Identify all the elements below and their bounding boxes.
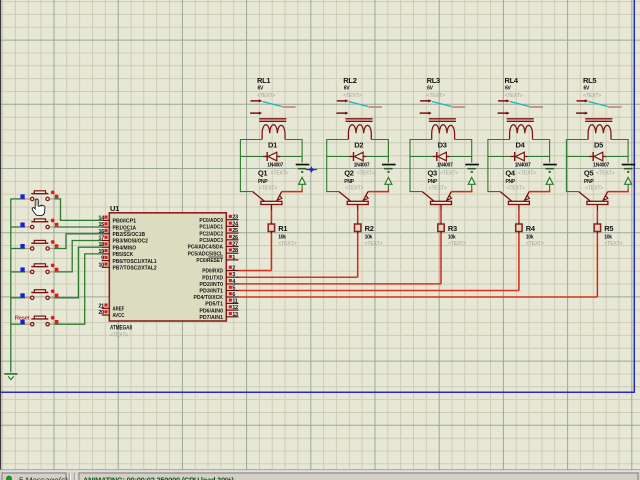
svg-text:PNP: PNP [506, 179, 516, 185]
svg-text:<TEXT>: <TEXT> [345, 185, 363, 191]
resistor R2 10k [355, 224, 383, 247]
svg-text:<TEXT>: <TEXT> [259, 185, 277, 191]
svg-text:1: 1 [232, 255, 235, 261]
wire base to resistor [518, 211, 520, 224]
pin 4 PD2/INT0 [199, 279, 238, 288]
svg-text:ANIMATING: 00:00:02.250000 (CP: ANIMATING: 00:00:02.250000 (CPU load 30%… [83, 476, 234, 480]
svg-text:PB0/ICP1: PB0/ICP1 [113, 219, 137, 225]
wire trunk to button B4 [11, 271, 25, 273]
svg-text:17: 17 [98, 236, 104, 242]
svg-text:PB2/SS/OC1B: PB2/SS/OC1B [113, 232, 146, 238]
diode D5 1N4007 [589, 141, 615, 177]
svg-text:<TEXT>: <TEXT> [110, 333, 128, 339]
power terminal arrow [625, 177, 632, 189]
svg-text:10k: 10k [604, 234, 612, 240]
svg-text:6V: 6V [505, 86, 511, 92]
svg-text:PC2/ADC2: PC2/ADC2 [199, 231, 223, 237]
pin 13 PD7/AIN1 [199, 312, 238, 321]
pin 21 AREF [98, 303, 124, 312]
resistor R5 10k [594, 224, 622, 247]
wire row from MCU pin [239, 296, 598, 298]
button B5 [20, 289, 58, 299]
svg-text:<TEXT>: <TEXT> [526, 241, 544, 247]
svg-text:AVCC: AVCC [113, 313, 125, 319]
pin 2 PD0/RXD [202, 266, 238, 275]
pin 25 PC2/ADC2 [199, 228, 238, 237]
wire resistor to row [357, 232, 359, 278]
svg-text:PC3/ADC3: PC3/ADC3 [199, 238, 223, 244]
wire row from MCU pin [239, 283, 442, 285]
svg-text:PD1/TXD: PD1/TXD [202, 275, 223, 281]
svg-text:R3: R3 [448, 224, 457, 233]
op MCU U1 body [109, 204, 226, 339]
status bar [0, 469, 640, 480]
svg-text:ATMEGA8: ATMEGA8 [110, 325, 132, 332]
svg-text:6: 6 [232, 292, 235, 298]
battery [543, 164, 557, 173]
svg-text:PB1/OC1A: PB1/OC1A [113, 225, 137, 231]
svg-text:<TEXT>: <TEXT> [365, 241, 383, 247]
svg-text:<TEXT>: <TEXT> [585, 185, 603, 191]
pin 12 PD6/AIN0 [199, 305, 238, 314]
wire row from MCU pin [239, 276, 358, 278]
svg-text:<TEXT>: <TEXT> [507, 185, 525, 191]
svg-text:PD6/AIN0: PD6/AIN0 [199, 308, 223, 314]
svg-text:Q1: Q1 [258, 168, 268, 177]
svg-text:<TEXT>: <TEXT> [257, 93, 275, 99]
transistor Q3 PNP [422, 168, 451, 210]
diode D3 1N4007 [433, 141, 459, 177]
pin 26 PC3/ADC3 [199, 235, 238, 244]
ground [4, 374, 17, 380]
svg-text:<TEXT>: <TEXT> [448, 241, 466, 247]
relay RL4 6V [498, 76, 544, 140]
pin 11 PD5/T1 [205, 298, 238, 307]
wire relay loop [327, 140, 389, 192]
svg-text:PNP: PNP [258, 179, 268, 185]
wire emitter to power [282, 189, 302, 191]
wire resistor to row [440, 232, 442, 284]
svg-text:PNP: PNP [584, 179, 594, 185]
wire emitter to power [368, 189, 388, 191]
wire relay loop [240, 140, 302, 192]
svg-text:1N4007: 1N4007 [515, 162, 531, 168]
wire resistor to row [596, 232, 598, 298]
svg-text:20: 20 [98, 310, 104, 316]
pin 23 PC0/ADC0 [199, 215, 238, 224]
pin 17 PB3/MOSI/OC2 [98, 236, 148, 245]
pin 9 PB6/TOSC1/XTAL1 [101, 256, 157, 265]
svg-text:11: 11 [232, 298, 237, 304]
svg-text:U1: U1 [110, 204, 119, 213]
svg-text:PB4/MISO: PB4/MISO [113, 245, 137, 251]
svg-text:PNP: PNP [344, 179, 354, 185]
svg-text:28: 28 [232, 248, 238, 254]
svg-text:<TEXT>: <TEXT> [604, 241, 622, 247]
svg-text:R2: R2 [365, 224, 374, 233]
power terminal arrow [468, 177, 475, 189]
svg-text:PD4/T0/XCK: PD4/T0/XCK [194, 295, 224, 301]
wire button B5 to MCU [54, 247, 101, 298]
svg-text:D5: D5 [594, 141, 603, 150]
svg-text:PB6/TOSC1/XTAL1: PB6/TOSC1/XTAL1 [113, 259, 157, 265]
svg-text:PC1/ADC1: PC1/ADC1 [199, 225, 223, 231]
svg-text:23: 23 [232, 215, 238, 221]
svg-text:10k: 10k [365, 234, 373, 240]
svg-text:PC4/ADC4/SDA: PC4/ADC4/SDA [188, 245, 223, 251]
svg-text:PC5/ADC5/SCL: PC5/ADC5/SCL [188, 251, 224, 257]
wire resistor to row [518, 232, 520, 291]
svg-text:PC0/ADC0: PC0/ADC0 [199, 218, 223, 224]
wire trunk to button B5 [11, 297, 25, 299]
svg-text:27: 27 [232, 242, 238, 248]
svg-text:16: 16 [98, 229, 104, 235]
pin 6 PD4/T0/XCK [194, 292, 239, 301]
svg-text:PD2/INT0: PD2/INT0 [199, 282, 223, 288]
svg-text:12: 12 [232, 305, 238, 311]
pin 18 PB4/MISO [98, 242, 136, 251]
svg-text:6V: 6V [344, 86, 350, 92]
svg-text:PC6/RESET: PC6/RESET [196, 258, 223, 264]
pin 28 PC5/ADC5/SCL [188, 248, 239, 257]
svg-text:PD0/RXD: PD0/RXD [202, 269, 223, 275]
diode D4 1N4007 [511, 141, 537, 177]
svg-text:<TEXT>: <TEXT> [278, 241, 296, 247]
left window edge [0, 0, 1, 480]
wire button B6 Reset to MCU [54, 254, 101, 324]
wire relay loop [566, 140, 628, 192]
pin 10 PB7/TOSC2/XTAL2 [98, 262, 156, 271]
svg-text:R1: R1 [278, 224, 287, 233]
status play icon [7, 476, 12, 480]
pin 27 PC4/ADC4/SDA [188, 242, 239, 251]
pin 19 PB5/SCK [98, 249, 133, 258]
svg-text:PD3/INT1: PD3/INT1 [199, 289, 223, 295]
button B4 [20, 264, 58, 274]
power terminal arrow [385, 177, 392, 189]
relay RL1 6V [250, 76, 296, 140]
wire base to resistor [357, 211, 359, 224]
svg-text:1N4007: 1N4007 [593, 162, 609, 168]
pin 5 PD3/INT1 [199, 286, 238, 295]
svg-text:RL3: RL3 [427, 76, 440, 85]
svg-text:D2: D2 [354, 141, 363, 150]
svg-text:9: 9 [101, 256, 104, 262]
svg-text:Reset: Reset [15, 315, 30, 321]
wire base to resistor [596, 211, 598, 224]
svg-text:Q4: Q4 [505, 168, 516, 177]
pin 24 PC1/ADC1 [199, 221, 239, 230]
resistor R4 10k [516, 224, 544, 247]
svg-text:6V: 6V [584, 86, 590, 92]
svg-text:PD5/T1: PD5/T1 [205, 302, 223, 308]
svg-text:R5: R5 [604, 224, 613, 233]
svg-text:2: 2 [232, 266, 235, 272]
svg-text:<TEXT>: <TEXT> [429, 185, 447, 191]
wire emitter to power [529, 189, 549, 191]
diode D2 1N4007 [349, 141, 375, 177]
button B1 [20, 191, 58, 201]
mouse cursor hand [32, 199, 45, 216]
svg-text:R4: R4 [526, 224, 536, 233]
svg-text:15: 15 [98, 222, 104, 228]
wire row from MCU pin [239, 290, 519, 292]
svg-text:<TEXT>: <TEXT> [427, 93, 445, 99]
wire button B2 to MCU [54, 226, 101, 228]
svg-text:Q2: Q2 [344, 168, 354, 177]
svg-text:19: 19 [98, 249, 104, 255]
svg-text:3: 3 [232, 272, 235, 278]
svg-text:D4: D4 [516, 141, 526, 150]
svg-text:<TEXT>: <TEXT> [343, 93, 361, 99]
svg-text:10k: 10k [526, 234, 534, 240]
button B6 Reset [20, 316, 58, 326]
svg-text:1N4007: 1N4007 [267, 162, 283, 168]
svg-text:6V: 6V [258, 86, 264, 92]
wire trunk to button B6 Reset [11, 323, 25, 325]
wire button B4 to MCU [54, 241, 101, 272]
pin 16 PB2/SS/OC1B [98, 229, 145, 238]
svg-text:Q5: Q5 [584, 168, 594, 177]
svg-text:<TEXT>: <TEXT> [518, 171, 536, 177]
svg-text:PD7/AIN1: PD7/AIN1 [199, 315, 223, 321]
svg-text:<TEXT>: <TEXT> [505, 93, 523, 99]
svg-text:13: 13 [232, 312, 238, 318]
svg-text:6V: 6V [427, 86, 433, 92]
power terminal arrow [299, 177, 306, 189]
svg-text:PB3/MOSI/OC2: PB3/MOSI/OC2 [113, 239, 148, 245]
pin 1 PC6/RESET [196, 255, 238, 264]
svg-text:25: 25 [232, 228, 238, 234]
svg-text:1N4007: 1N4007 [354, 162, 370, 168]
power terminal arrow [546, 177, 553, 189]
wire relay loop [410, 140, 472, 192]
svg-text:26: 26 [232, 235, 238, 241]
wire trunk to button B1 [11, 198, 25, 200]
wire base to resistor [270, 211, 272, 224]
svg-text:<TEXT>: <TEXT> [440, 171, 458, 177]
wire button B3 to MCU [54, 234, 101, 249]
svg-text:<TEXT>: <TEXT> [583, 93, 601, 99]
resistor R3 10k [438, 224, 466, 247]
pin 15 PB1/OC1A [98, 222, 136, 231]
svg-text:AREF: AREF [113, 307, 125, 313]
wire emitter to power [451, 189, 471, 191]
svg-text:18: 18 [98, 242, 104, 248]
wire trunk to button B2 [11, 226, 25, 228]
wire relay loop [488, 140, 550, 192]
wire trunk vertical [10, 199, 12, 373]
svg-text:D1: D1 [268, 141, 277, 150]
svg-text:<TEXT>: <TEXT> [270, 171, 288, 177]
svg-text:5: 5 [232, 286, 235, 292]
svg-text:PB5/SCK: PB5/SCK [113, 252, 134, 258]
svg-text:Q3: Q3 [428, 168, 438, 177]
transistor Q5 PNP [579, 168, 608, 210]
wire base to resistor [440, 211, 442, 224]
relay RL5 6V [576, 76, 622, 140]
svg-text:RL1: RL1 [257, 76, 270, 85]
wire trunk to button B3 [11, 248, 25, 250]
battery [465, 164, 479, 173]
pin 20 AVCC [98, 310, 124, 319]
svg-text:10: 10 [98, 262, 104, 268]
svg-text:PB7/TOSC2/XTAL2: PB7/TOSC2/XTAL2 [113, 266, 157, 272]
button B2 [20, 219, 58, 229]
transistor Q2 PNP [339, 168, 368, 210]
battery [382, 164, 396, 173]
pin 14 PB0/ICP1 [98, 215, 136, 224]
wire button B1 to MCU [54, 199, 101, 221]
diode D1 1N4007 [263, 141, 289, 177]
pin 3 PD1/TXD [202, 272, 238, 281]
svg-text:1N4007: 1N4007 [437, 162, 453, 168]
wire resistor to row [270, 232, 272, 271]
transistor Q1 PNP [253, 168, 282, 210]
relay RL2 6V [336, 76, 382, 140]
battery [622, 164, 636, 173]
resistor R1 10k [268, 224, 296, 247]
button B3 [20, 240, 58, 250]
svg-text:PNP: PNP [428, 179, 438, 185]
svg-text:10k: 10k [448, 234, 456, 240]
svg-text:RL4: RL4 [505, 76, 519, 85]
transistor Q4 PNP [500, 168, 529, 210]
wire row from MCU pin [239, 270, 272, 272]
svg-text:<TEXT>: <TEXT> [596, 171, 614, 177]
svg-text:RL5: RL5 [583, 76, 596, 85]
svg-text:10k: 10k [278, 234, 286, 240]
wire emitter to power [608, 189, 628, 191]
svg-text:21: 21 [98, 303, 104, 309]
svg-text:<TEXT>: <TEXT> [357, 171, 375, 177]
svg-text:RL2: RL2 [343, 76, 356, 85]
svg-text:D3: D3 [438, 141, 447, 150]
relay RL3 6V [420, 76, 466, 140]
battery [296, 164, 317, 173]
